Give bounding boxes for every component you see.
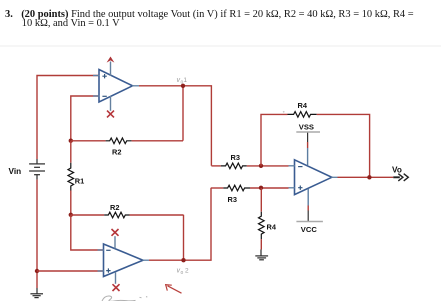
faint speck near R4 <box>283 111 285 113</box>
svg-text:2: 2 <box>185 268 189 275</box>
node: R3b / R4b junction <box>259 186 263 190</box>
resistor R1 <box>68 141 74 215</box>
wire: feedback riser to v_o1 node <box>182 86 184 141</box>
battery V1 (Vin source) <box>29 159 45 180</box>
node: R3a / R4a junction <box>259 164 263 168</box>
resistor R2 (U1 feedback) <box>71 138 183 144</box>
U1 V+ stub with arrow <box>107 57 115 77</box>
wire: U1 output to corner (toward R3a) <box>139 86 211 166</box>
resistor R2 (U2 feedback) <box>71 212 184 218</box>
resistor R3 (bottom) <box>211 185 289 191</box>
node v_o2 <box>181 258 185 262</box>
node: junction at left rail / U2 + input <box>35 269 39 273</box>
svg-text:R1: R1 <box>75 177 84 186</box>
svg-text:VCC: VCC <box>301 225 318 234</box>
op-amp U3 <box>289 160 338 195</box>
svg-text:R3: R3 <box>231 153 240 162</box>
problem statement text <box>5 10 13 20</box>
U2 V- stub with X (bottom) <box>113 272 120 291</box>
wire: R2b right to v_o2 node <box>183 215 185 260</box>
Vo arrow <box>393 174 408 181</box>
node v_o1 <box>181 84 185 88</box>
svg-text:R3: R3 <box>228 195 237 204</box>
wire: U3 output to Vo <box>338 176 394 178</box>
svg-text:R2: R2 <box>110 203 119 212</box>
svg-text:R4: R4 <box>267 223 277 232</box>
node A junction (R1/R2 top) <box>69 139 73 143</box>
op-amp U2 <box>98 244 150 277</box>
wire: junction to op-amp U2 + input <box>37 270 104 272</box>
red pen mark (arrow) <box>165 284 182 293</box>
wire: left rail top to op-amp U1 + input <box>37 76 99 160</box>
node: output junction <box>367 175 371 179</box>
U2 V+ stub with X (top) <box>112 229 119 249</box>
op-amp U1 <box>93 70 139 103</box>
wire: battery bottom to ground junction <box>36 180 38 288</box>
resistor R4 (feedback, top) <box>261 112 370 178</box>
node: junction at R1 bottom / R2b <box>69 213 73 217</box>
faint separator line <box>0 45 441 47</box>
wire: node to U2 - input <box>71 215 104 250</box>
resistor R4 (divider, bottom) <box>259 188 265 250</box>
svg-text:1: 1 <box>183 77 187 84</box>
wire: v_o2 run to corner then up to R3b <box>149 188 211 260</box>
svg-text:VSS: VSS <box>299 123 314 132</box>
pencil signature (clipped at bottom) <box>102 296 147 301</box>
svg-text:Vo: Vo <box>392 166 402 175</box>
VSS rail symbol <box>296 123 320 166</box>
ground (bottom-left) <box>30 288 43 298</box>
svg-text:Vin: Vin <box>9 167 22 176</box>
resistor R3 (top) <box>211 163 288 169</box>
wire: U1 - input to node A <box>71 96 99 141</box>
U1 V- stub with X <box>107 96 114 117</box>
VCC rail symbol <box>296 189 323 234</box>
svg-text:o: o <box>181 270 184 276</box>
svg-text:R4: R4 <box>298 101 308 110</box>
ground (below R4) <box>255 250 268 260</box>
svg-text:R2: R2 <box>112 148 121 157</box>
